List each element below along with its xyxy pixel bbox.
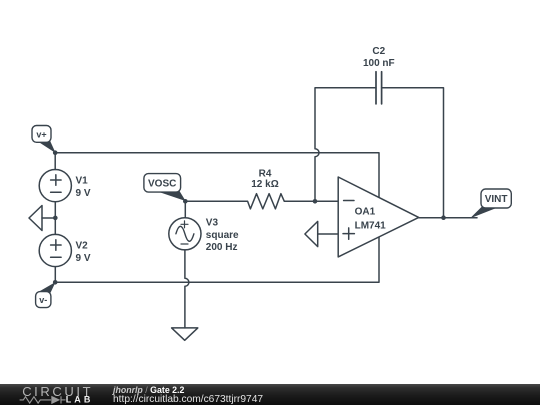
svg-text:200 Hz: 200 Hz [206, 242, 238, 253]
svg-text:square: square [206, 230, 239, 241]
svg-text:9 V: 9 V [76, 253, 91, 264]
svg-text:v-: v- [39, 295, 47, 305]
svg-text:C2: C2 [372, 46, 385, 57]
svg-text:v+: v+ [36, 129, 46, 139]
svg-text:OA1: OA1 [355, 206, 376, 217]
svg-text:VOSC: VOSC [148, 178, 176, 189]
svg-text:LAB: LAB [66, 395, 94, 405]
svg-text:100 nF: 100 nF [363, 58, 395, 69]
svg-text:V3: V3 [206, 218, 219, 229]
svg-text:R4: R4 [259, 168, 272, 179]
svg-text:V2: V2 [76, 241, 89, 252]
svg-text:LM741: LM741 [355, 221, 387, 232]
svg-text:9 V: 9 V [76, 188, 91, 199]
svg-text:VINT: VINT [485, 194, 508, 205]
svg-text:12 kΩ: 12 kΩ [251, 179, 278, 190]
svg-text:V1: V1 [76, 176, 89, 187]
